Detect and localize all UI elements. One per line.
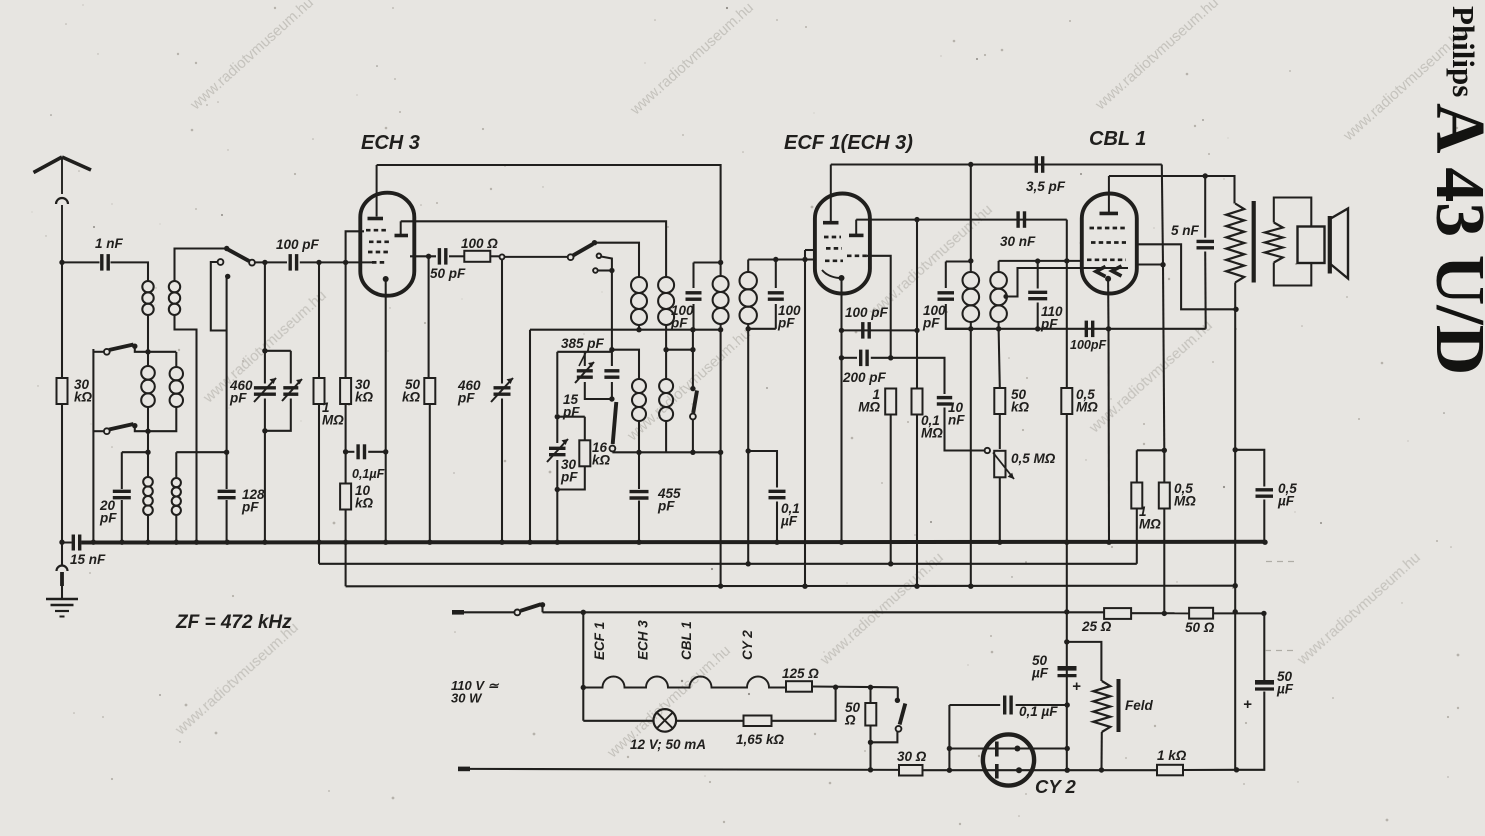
wire <box>93 351 103 353</box>
wire aux hook <box>601 257 612 263</box>
wire to line2 <box>318 543 320 564</box>
junction <box>968 326 973 331</box>
wire 0,1uF branch <box>748 451 777 488</box>
svg-text:Ω: Ω <box>844 713 856 728</box>
wire <box>676 720 743 722</box>
bus junction <box>194 540 199 545</box>
resistor 1 MΩ (ECF1 grid) <box>885 389 896 415</box>
coil ant B1 <box>169 281 180 315</box>
tube ECF1 triode anode <box>849 234 864 238</box>
wire ECH3 osc grid out <box>410 255 436 257</box>
wire <box>692 304 694 330</box>
bus junction <box>316 540 321 545</box>
capacitor 100 pF (RF) <box>290 254 296 271</box>
mains switch contact <box>514 610 520 616</box>
capacitor 30 nF <box>1018 211 1024 228</box>
coil osc B lower <box>659 379 673 421</box>
switch S1b throw <box>132 423 137 428</box>
resistor 1 kΩ <box>1157 765 1183 776</box>
wire <box>946 260 971 262</box>
wire <box>541 605 543 613</box>
switch S3 aux contact b <box>593 268 598 273</box>
svg-text:CBL 1: CBL 1 <box>1089 128 1146 150</box>
wire to bus <box>121 500 123 543</box>
wire <box>999 414 1001 449</box>
svg-text:1 kΩ: 1 kΩ <box>1157 748 1187 763</box>
wire IF2 top to CBL1 grid <box>999 260 1082 262</box>
bus junction <box>91 540 96 545</box>
junction <box>1065 702 1070 707</box>
junction cathode/0,1uF <box>383 449 388 454</box>
svg-text:50 Ω: 50 Ω <box>1185 620 1215 635</box>
svg-text:ZF = 472 kHz: ZF = 472 kHz <box>175 612 292 633</box>
capacitor 455 pF <box>630 492 649 498</box>
arrow 385 trimmer <box>575 362 594 383</box>
switch S3 contact <box>568 254 574 260</box>
junction <box>833 685 838 690</box>
svg-text:CBL 1: CBL 1 <box>679 621 694 660</box>
wire osc common y330 <box>530 329 721 331</box>
svg-text:MΩ: MΩ <box>322 413 344 428</box>
wire <box>255 261 287 263</box>
wire <box>720 263 722 277</box>
svg-text:pF: pF <box>922 316 940 331</box>
potentiometer wiper <box>985 448 990 453</box>
wire <box>345 404 347 543</box>
svg-text:MΩ: MΩ <box>1139 517 1161 532</box>
wire <box>665 325 667 350</box>
tube CY2 plates <box>995 742 999 779</box>
junction <box>262 260 267 265</box>
wire <box>61 586 63 599</box>
resistor 125 Ω <box>786 681 812 692</box>
junction <box>868 767 873 772</box>
tube CY2 pin <box>1014 746 1020 752</box>
junction <box>1035 258 1040 263</box>
svg-text:125 Ω: 125 Ω <box>782 666 819 681</box>
bus junction <box>555 540 560 545</box>
wire to bus <box>776 502 778 543</box>
svg-text:1 nF: 1 nF <box>95 236 124 251</box>
capacitor 100pF (CBL1 cathode) <box>1086 321 1092 338</box>
coil tap <box>1003 294 1008 299</box>
wire <box>368 451 388 453</box>
capacitor 5 nF <box>1197 241 1215 247</box>
wire 100pF (det) <box>842 329 918 331</box>
svg-text:30 Ω: 30 Ω <box>897 749 927 764</box>
wire <box>665 421 667 452</box>
switch S1b contact <box>104 428 110 434</box>
wire <box>611 382 613 399</box>
switch S5 contact <box>610 446 616 452</box>
wire antenna lead down <box>61 262 63 542</box>
capacitor 0,1 µF (CY2) <box>1005 696 1011 715</box>
capacitor 50 µF b (electrolytic) <box>1255 682 1274 689</box>
coil osc A upper <box>631 277 647 325</box>
wire <box>970 261 972 272</box>
junction <box>1233 447 1238 452</box>
junction <box>947 768 952 773</box>
wire <box>946 304 971 329</box>
capacitor 0,5 µF <box>1256 490 1274 496</box>
wire line4 <box>1131 612 1189 614</box>
svg-text:5 nF: 5 nF <box>1171 223 1200 238</box>
wire primary down <box>1234 283 1236 450</box>
svg-text:CY 2: CY 2 <box>1035 776 1077 797</box>
wire mains lower line <box>470 769 899 770</box>
wire <box>812 685 898 688</box>
bus junction <box>119 540 124 545</box>
tube CBL1 envelope <box>1082 194 1137 294</box>
wire <box>135 346 148 352</box>
bus junction <box>383 540 388 545</box>
junction <box>690 327 695 332</box>
resistor 50 kΩ (osc grid) <box>424 378 435 404</box>
svg-text:MΩ: MΩ <box>858 400 880 415</box>
svg-text:pF: pF <box>657 499 675 514</box>
wire to osc coil A top <box>595 243 640 277</box>
tube ECH3 triode anode <box>395 234 409 238</box>
resistor 16 kΩ <box>579 440 590 466</box>
wire to bus <box>318 404 320 543</box>
switch S2 arm <box>228 250 249 262</box>
wire to bus <box>638 501 640 543</box>
capacitor 0,1 µF (IF decoupling) <box>769 491 786 497</box>
contact <box>225 274 230 279</box>
wire to bus <box>147 515 149 543</box>
wire 50k top <box>999 329 1000 388</box>
junction <box>868 685 873 690</box>
junction <box>636 327 641 332</box>
junction <box>914 584 919 589</box>
resistor 1 MΩ (CBL1) <box>1131 483 1142 509</box>
tube CBL1 grid2 (dashed) <box>1090 227 1126 230</box>
junction <box>1162 611 1167 616</box>
junction <box>145 450 150 455</box>
wire <box>612 350 639 379</box>
wire aux contact down <box>211 262 227 331</box>
wire 200pF <box>842 357 858 359</box>
wire <box>175 452 177 478</box>
arrow 30 pF <box>547 439 568 462</box>
junction <box>996 326 1001 331</box>
wire switch common <box>92 349 94 543</box>
wire cathode to bus <box>1107 329 1110 542</box>
capacitor 15 nF <box>73 535 79 551</box>
coil IF1 secondary <box>740 272 757 324</box>
capacitor 20 pF <box>113 491 131 497</box>
junction <box>802 257 807 262</box>
wire <box>557 416 585 418</box>
wire line4 <box>1213 612 1264 614</box>
junction <box>1162 448 1167 453</box>
tube CY2 pin <box>1016 767 1022 773</box>
svg-text:100pF: 100pF <box>1070 338 1106 352</box>
switch S3 pivot <box>592 240 597 245</box>
junction <box>1035 326 1040 331</box>
wire <box>775 304 777 329</box>
wire <box>775 260 777 289</box>
wire 20pF top <box>122 451 148 453</box>
wire <box>666 349 693 351</box>
coil IF1 primary <box>713 276 729 324</box>
bus junction <box>225 540 230 545</box>
wire to ECH3 grid 4 <box>346 261 372 263</box>
capacitor 50 pF <box>439 248 445 265</box>
tube CBL1 grid3 (dashed) <box>1087 258 1126 261</box>
wire CY2 cathode line <box>949 769 1067 771</box>
junction <box>1106 326 1111 331</box>
tube ECH3 envelope <box>360 193 414 296</box>
svg-text:25 Ω: 25 Ω <box>1081 619 1112 634</box>
ground feedthrough <box>57 566 68 572</box>
wire <box>998 261 1000 272</box>
capacitor 50 µF (electrolytic) <box>1058 668 1077 675</box>
wire to line3 <box>720 452 722 586</box>
switch S1a throw <box>132 344 137 349</box>
wire <box>869 742 871 769</box>
coil osc A lower <box>632 379 646 421</box>
wire B+ filter column <box>1066 612 1068 770</box>
svg-text:A 43 U/D: A 43 U/D <box>1421 103 1485 375</box>
tube ECH3 grid 4 (dashed) <box>372 261 387 264</box>
switch S6 arm <box>900 704 906 725</box>
wire ECF1 anode to IF2 primary <box>970 165 972 261</box>
switch S3 arm <box>573 244 593 256</box>
wire to bus <box>501 399 503 543</box>
wire ECH3 triode anode to osc coil <box>401 221 666 277</box>
switch S6 pivot <box>895 698 900 703</box>
svg-text:kΩ: kΩ <box>402 390 421 405</box>
svg-text:ECH 3: ECH 3 <box>636 620 651 660</box>
wire <box>897 687 899 698</box>
bus junction <box>262 540 267 545</box>
wire <box>1016 704 1068 706</box>
junction <box>426 254 431 259</box>
wire <box>748 328 776 330</box>
junction <box>555 487 560 492</box>
wire to field coil <box>1067 642 1102 681</box>
svg-text:100 Ω: 100 Ω <box>461 236 498 251</box>
wire IF1 top to ECF1 grid <box>748 258 816 260</box>
junction <box>839 328 844 333</box>
wire <box>871 732 898 742</box>
wire pot to bus <box>999 477 1001 542</box>
field coil core <box>1117 679 1121 732</box>
wire <box>556 460 558 490</box>
coil ant A3 <box>143 477 153 515</box>
svg-text:MΩ: MΩ <box>921 426 943 441</box>
wire <box>1263 613 1265 680</box>
svg-text:MΩ: MΩ <box>1174 494 1196 509</box>
junction <box>1099 767 1104 772</box>
wire down across bus to line4 <box>1066 414 1068 612</box>
junction <box>1203 173 1208 178</box>
junction <box>746 448 751 453</box>
svg-text:kΩ: kΩ <box>1011 400 1030 415</box>
junction <box>262 348 267 353</box>
wire <box>1137 449 1165 451</box>
bus junction <box>839 540 844 545</box>
wire <box>264 399 266 431</box>
tube ECF1 pentode anode <box>823 221 839 225</box>
wire <box>449 255 465 257</box>
wire <box>1100 732 1102 770</box>
wire to bus <box>175 515 177 543</box>
output transformer primary <box>1226 204 1244 283</box>
wire to line2 <box>747 329 749 564</box>
capacitor 100 pF (osc tank) <box>686 293 702 299</box>
wire <box>692 263 694 289</box>
mains terminal lower <box>458 767 470 772</box>
junction <box>224 450 229 455</box>
wire osc common y452 <box>612 451 720 453</box>
wire to bus <box>226 500 228 543</box>
junction <box>1233 583 1238 588</box>
junction <box>690 450 695 455</box>
capacitor 30 pF trimmer <box>549 448 566 454</box>
junction <box>746 561 751 566</box>
junction <box>1234 767 1239 772</box>
bus junction <box>1262 540 1267 545</box>
junction <box>1064 609 1069 614</box>
wire <box>945 262 947 289</box>
junction <box>581 685 586 690</box>
bus junction <box>145 540 150 545</box>
switch S4 contact <box>690 414 696 420</box>
speaker <box>1298 209 1349 279</box>
svg-text:kΩ: kΩ <box>355 496 374 511</box>
junction <box>609 396 614 401</box>
junction <box>888 561 893 566</box>
wire 50k top <box>428 256 430 378</box>
wire <box>1237 692 1265 770</box>
wire return line 3 <box>346 585 1236 588</box>
watermark texts (decorative) <box>171 0 1469 762</box>
junction <box>690 347 695 352</box>
wire to ground <box>61 543 63 565</box>
switch S1a contact <box>104 349 110 355</box>
wire heater feed down <box>582 612 584 721</box>
mains terminal upper <box>452 610 464 615</box>
wire ECH3 anode top line <box>377 165 721 263</box>
junction <box>316 260 321 265</box>
junction <box>868 740 873 745</box>
wire ECF1 triode anode line <box>856 219 1067 221</box>
wire <box>692 420 694 453</box>
arrow trimmer <box>282 379 302 401</box>
tube CBL1 cathode <box>1105 276 1111 282</box>
wire 0,1M top <box>916 220 918 389</box>
tube ECF1 envelope <box>815 194 870 294</box>
svg-text:µF: µF <box>1276 682 1294 697</box>
svg-text:kΩ: kΩ <box>355 390 374 405</box>
junction <box>581 610 586 615</box>
resistor 50 Ω (heater shunt) <box>865 703 876 726</box>
wire <box>147 315 149 352</box>
resistor 1,65 kΩ <box>744 716 772 727</box>
bus junction <box>636 540 641 545</box>
bus junction <box>774 540 779 545</box>
wire <box>148 407 176 431</box>
wire <box>638 421 640 452</box>
wire down to bus <box>529 330 531 543</box>
wire CBL1 cathode <box>1107 279 1109 329</box>
bus junction <box>1064 540 1069 545</box>
capacitor 1 nF <box>102 254 108 271</box>
junction <box>839 355 844 360</box>
tube CBL1 anode <box>1100 212 1119 216</box>
wire 385 box left <box>556 352 558 414</box>
wire to bus end <box>1263 500 1265 542</box>
wire 1M <box>1136 450 1138 482</box>
junction <box>555 414 560 419</box>
svg-text:pF: pF <box>777 316 795 331</box>
junction <box>802 584 807 589</box>
terminal <box>500 254 505 259</box>
junction <box>1064 639 1069 644</box>
wire to line4 <box>1163 509 1165 614</box>
wire <box>147 407 149 431</box>
wire <box>147 452 149 477</box>
wire to 10nF <box>871 358 945 394</box>
bus junction <box>427 540 432 545</box>
wire <box>490 255 499 257</box>
wire to volume pot <box>945 408 985 451</box>
wire to line3 <box>970 329 972 587</box>
resistor 1 MΩ (ECH3 grid) <box>314 378 325 404</box>
wire to bus <box>556 490 558 543</box>
svg-text:µF: µF <box>1277 494 1295 509</box>
ground bus <box>62 542 72 544</box>
tube ECH3 grid 2 (dashed) <box>369 240 390 243</box>
tube ECF1 grid4 (dashed) <box>825 259 843 262</box>
coil IF2 primary <box>963 272 980 322</box>
resistor 10 kΩ <box>340 484 351 510</box>
wire <box>611 352 613 366</box>
wire down to 1M/0,5M node <box>1163 265 1164 451</box>
bus junction <box>343 540 348 545</box>
wire 1M <box>318 262 320 378</box>
junction <box>145 349 150 354</box>
resistor 50 Ω (screen) <box>1189 608 1213 619</box>
switch S2 pivot <box>224 246 229 251</box>
svg-text:+: + <box>1243 696 1252 713</box>
tube CBL1 diode plates <box>1096 266 1122 277</box>
antenna <box>34 157 92 262</box>
junction <box>343 260 348 265</box>
svg-text:30 W: 30 W <box>451 691 483 706</box>
mains switch pivot <box>540 602 545 607</box>
wire <box>638 325 640 330</box>
junction <box>718 450 723 455</box>
svg-text:100 pF: 100 pF <box>276 237 320 252</box>
wire to line3 <box>345 543 347 587</box>
bus junction <box>174 540 179 545</box>
capacitor 460 pF variable <box>254 388 276 394</box>
svg-text:3,5 pF: 3,5 pF <box>1026 179 1066 194</box>
wire CBL1 screen to B+ <box>1137 244 1236 309</box>
wire <box>869 687 871 703</box>
junction <box>636 450 641 455</box>
output transformer core <box>1252 201 1256 283</box>
wire to line2 <box>890 415 892 564</box>
tube ECF1 cathode <box>839 275 845 281</box>
wire <box>720 324 722 330</box>
capacitor 10 nF <box>937 398 952 404</box>
capacitor 128 pF <box>218 491 236 497</box>
junction <box>746 326 751 331</box>
